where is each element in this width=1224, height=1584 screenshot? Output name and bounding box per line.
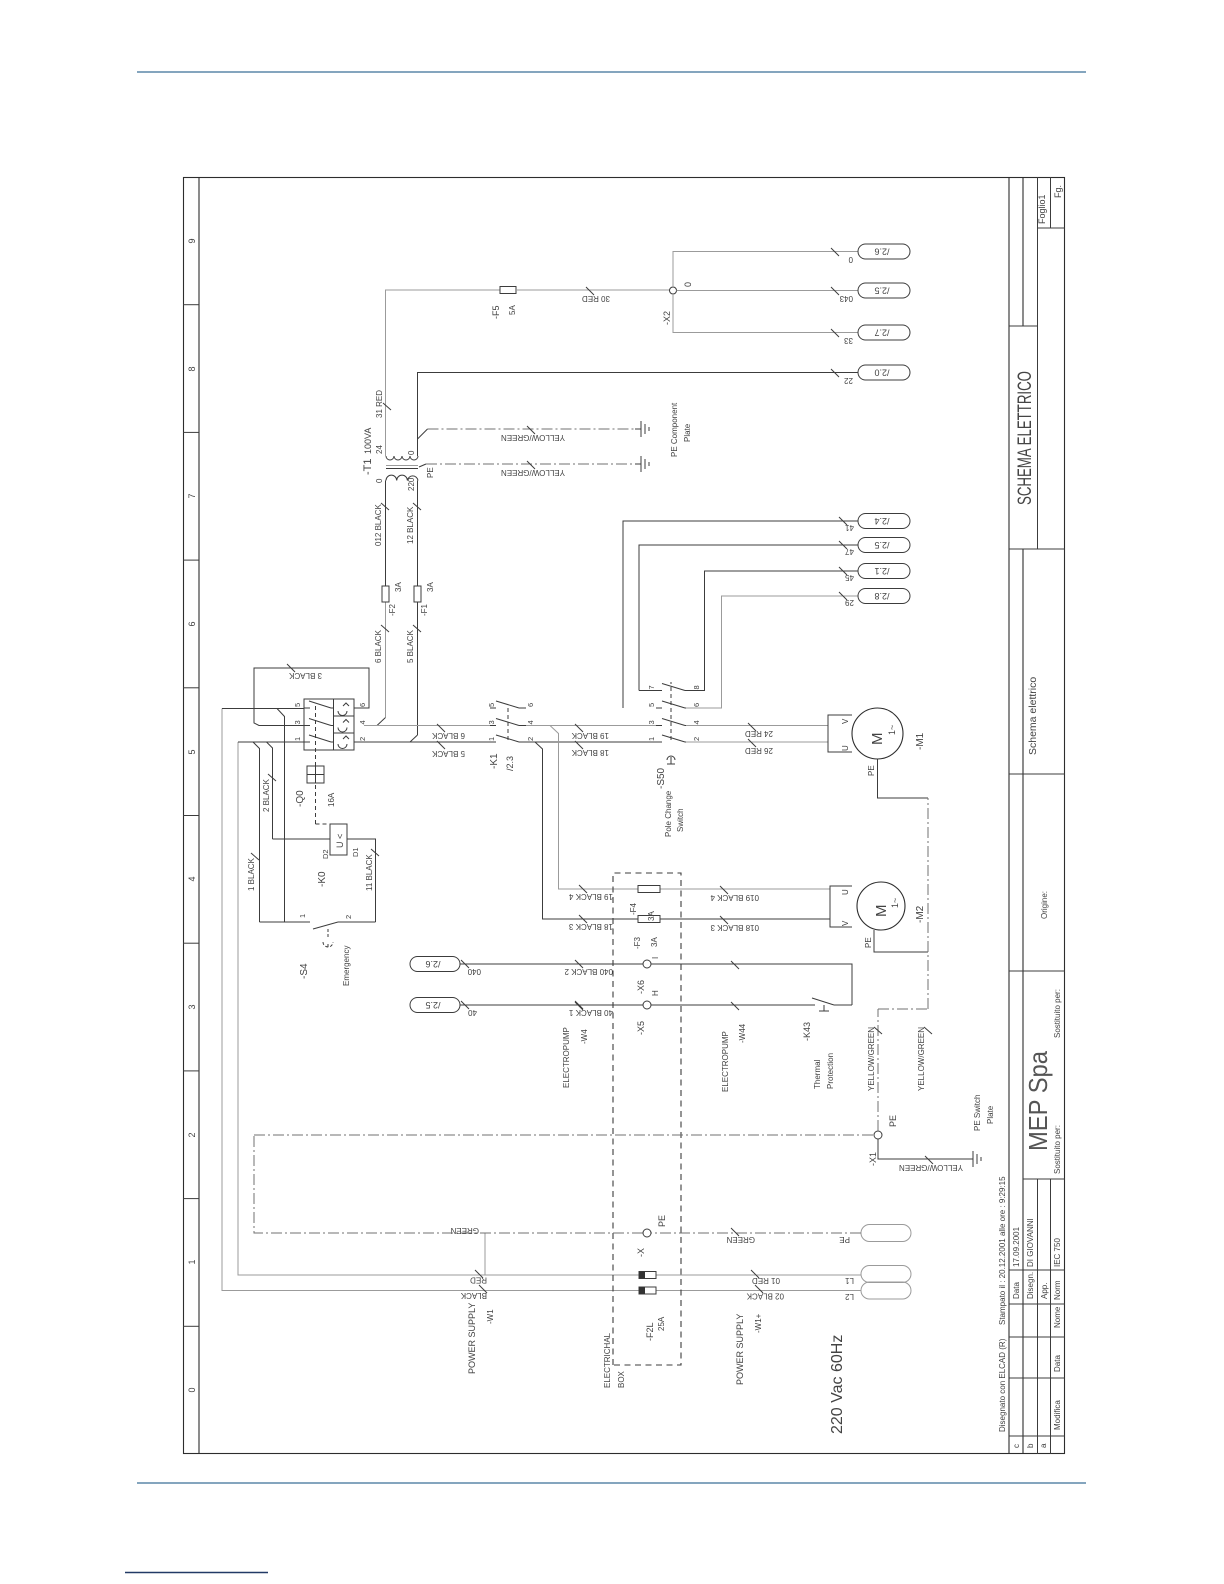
- svg-text:PE: PE: [426, 467, 435, 478]
- wire 30 RED F5 to X2: [516, 289, 670, 291]
- svg-text:RED: RED: [470, 1276, 487, 1285]
- svg-text:4: 4: [526, 720, 535, 724]
- wire 31 RED from T1 secondary: [386, 290, 501, 456]
- svg-text:/2.6: /2.6: [874, 247, 889, 257]
- svg-text:3: 3: [293, 720, 302, 724]
- PE dash-dot line from 0 tap to ground: [428, 428, 636, 430]
- svg-text:2: 2: [187, 1132, 197, 1137]
- X1 earth wire: [878, 1139, 973, 1159]
- svg-text:ELECTROPUMP: ELECTROPUMP: [562, 1027, 571, 1088]
- svg-text:0: 0: [848, 255, 853, 264]
- S4 mushroom actuator: [323, 927, 333, 947]
- svg-text:/2.4: /2.4: [874, 516, 889, 526]
- terminal X5 PE: [643, 1229, 651, 1237]
- svg-text:-F1: -F1: [420, 603, 429, 616]
- svg-text:POWER SUPPLY: POWER SUPPLY: [735, 1314, 745, 1385]
- off-page connector /2.5: [858, 538, 910, 553]
- svg-text:PE: PE: [888, 1115, 898, 1127]
- svg-text:BLACK: BLACK: [460, 1291, 487, 1300]
- svg-text:M: M: [873, 905, 890, 918]
- wire S50.5 to /2.4 reference: [623, 521, 858, 708]
- off-page connector /2.6 lower: [858, 244, 910, 259]
- ELECTRICHAL BOX dashed outline: [613, 873, 681, 1365]
- wire S50.6 to /2.8 reference: [686, 596, 858, 708]
- svg-text:/2.8: /2.8: [874, 591, 889, 601]
- svg-text:V: V: [841, 718, 850, 724]
- wire 019 BLACK 4 fuse F4 to M2.U: [660, 888, 830, 890]
- svg-text:Data: Data: [1012, 1282, 1021, 1299]
- svg-text:45: 45: [845, 573, 854, 582]
- svg-text:30 RED: 30 RED: [582, 294, 610, 303]
- svg-text:I: I: [651, 957, 660, 959]
- off-page connector /2.5 upper: [410, 998, 460, 1013]
- svg-text:5 BLACK: 5 BLACK: [431, 749, 465, 758]
- svg-text:7: 7: [187, 493, 197, 498]
- svg-text:5: 5: [187, 749, 197, 754]
- page footer rule: [137, 1482, 1086, 1484]
- X2 branch to /2.6: [673, 252, 858, 288]
- wire number tick marks: [839, 517, 847, 525]
- svg-text:6: 6: [692, 703, 701, 707]
- svg-text:GREEN: GREEN: [726, 1235, 755, 1244]
- PE bus dash-dot left riser (to X5 PE and PE capsule): [254, 1135, 861, 1233]
- svg-text:-F5: -F5: [491, 306, 501, 320]
- svg-text:3A: 3A: [647, 911, 656, 921]
- svg-text:24: 24: [375, 445, 384, 454]
- supply capsule PE: [861, 1225, 911, 1242]
- svg-text:3: 3: [487, 720, 496, 724]
- svg-text:Nome: Nome: [1053, 1306, 1062, 1328]
- svg-text:Protection: Protection: [826, 1053, 835, 1089]
- svg-text:3A: 3A: [394, 582, 403, 592]
- svg-text:H: H: [651, 990, 660, 996]
- svg-text:4: 4: [692, 720, 701, 724]
- svg-text:-T1: -T1: [362, 459, 374, 476]
- PE dash-dot X1 to machine: [878, 798, 928, 1131]
- svg-text:8: 8: [692, 685, 701, 689]
- svg-text:0: 0: [375, 478, 384, 483]
- terminal X6 I: [643, 960, 651, 968]
- ruler strip line: [198, 177, 200, 1454]
- svg-text:5: 5: [487, 703, 496, 707]
- svg-text:2: 2: [358, 737, 367, 741]
- svg-text:Switch: Switch: [676, 808, 685, 832]
- branch to M2 fuse F3 (18 BLACK 3): [535, 742, 638, 919]
- svg-text:IEC 750: IEC 750: [1053, 1238, 1062, 1267]
- svg-text:3: 3: [647, 720, 656, 724]
- svg-text:4: 4: [187, 876, 197, 881]
- off-page connector /2.0: [858, 365, 910, 380]
- terminal X1 PE: [874, 1131, 882, 1139]
- svg-text:-W44: -W44: [738, 1023, 747, 1043]
- svg-text:YELLOW/GREEN: YELLOW/GREEN: [899, 1163, 963, 1172]
- svg-text:ELECTROPUMP: ELECTROPUMP: [721, 1031, 730, 1092]
- svg-text:-F2L: -F2L: [645, 1322, 655, 1341]
- svg-text:24 RED: 24 RED: [745, 729, 773, 738]
- svg-text:-M1: -M1: [915, 732, 926, 750]
- S50 pole 7-8: [656, 684, 686, 691]
- fuse F4: [638, 886, 660, 893]
- svg-text:U: U: [841, 889, 850, 895]
- svg-text:-S50: -S50: [656, 767, 667, 789]
- svg-text:a: a: [1039, 1443, 1048, 1448]
- svg-text:/2.3: /2.3: [505, 756, 515, 771]
- page header rule: [137, 71, 1086, 73]
- S50 pole 3-4: [656, 719, 686, 726]
- svg-text:6: 6: [358, 703, 367, 707]
- svg-text:220: 220: [407, 477, 416, 491]
- contactor K1 pole 5-6: [490, 701, 526, 708]
- terminal X5 H: [643, 1001, 651, 1009]
- fuse F1: [414, 586, 421, 602]
- svg-text:-X5: -X5: [636, 1021, 646, 1035]
- ground symbol 2: [635, 456, 649, 472]
- svg-text:-K43: -K43: [802, 1022, 812, 1041]
- svg-text:/2.5: /2.5: [425, 1000, 440, 1010]
- svg-text:40 BLACK 1: 40 BLACK 1: [568, 1008, 613, 1017]
- fuse F5: [500, 287, 516, 294]
- svg-text:-F3: -F3: [633, 936, 642, 949]
- svg-text:2: 2: [526, 737, 535, 741]
- off-page connector /2.5 lower: [858, 283, 910, 298]
- svg-text:1: 1: [187, 1259, 197, 1264]
- svg-text:App.: App.: [1040, 1283, 1049, 1299]
- motor M2 terminal bracket: [830, 886, 852, 927]
- wire 5 BLACK from fuse F1 into Q0.2: [354, 481, 418, 743]
- main vertical wire phase A (x=712) Q0 to K1: [354, 741, 490, 743]
- Q0 operating mechanism: [307, 766, 324, 783]
- svg-text:018 BLACK 3: 018 BLACK 3: [710, 923, 759, 932]
- contactor K1 pole 1-2: [490, 735, 526, 742]
- svg-text:1~: 1~: [890, 898, 900, 908]
- svg-text:6 BLACK: 6 BLACK: [431, 731, 465, 740]
- svg-text:Foglio1: Foglio1: [1037, 194, 1047, 224]
- svg-text:0: 0: [407, 450, 416, 455]
- ground symbol 1: [635, 421, 649, 437]
- wire 0 tap to /2.0: [418, 373, 859, 457]
- emergency switch S4 column: [260, 922, 376, 929]
- svg-text:18 BLACK 3: 18 BLACK 3: [568, 922, 613, 931]
- svg-text:26 RED: 26 RED: [745, 746, 773, 755]
- svg-text:BOX: BOX: [617, 1370, 626, 1388]
- svg-text:2: 2: [344, 915, 353, 919]
- wire from supply to Q0 terminal 1: [238, 742, 304, 922]
- svg-text:Thermal: Thermal: [813, 1059, 822, 1089]
- svg-text:12 BLACK: 12 BLACK: [406, 506, 415, 544]
- svg-text:29: 29: [845, 598, 854, 607]
- svg-text:b: b: [1026, 1443, 1035, 1448]
- svg-text:Disegnato con ELCAD (R): Disegnato con ELCAD (R): [998, 1338, 1007, 1432]
- X2 branch to /2.5: [677, 290, 859, 292]
- svg-text:PE: PE: [839, 1235, 850, 1244]
- svg-text:1: 1: [293, 737, 302, 741]
- off-page connector /2.8: [858, 589, 910, 604]
- svg-text:1: 1: [298, 914, 307, 918]
- svg-text:-Q0: -Q0: [295, 790, 306, 807]
- svg-text:0: 0: [683, 282, 693, 287]
- svg-text:5A: 5A: [508, 305, 517, 315]
- wire S50.8 to /2.1 reference: [686, 571, 858, 691]
- svg-text:Schema elettrico: Schema elettrico: [1027, 677, 1039, 755]
- T1 secondary winding: [386, 456, 418, 460]
- svg-text:012 BLACK: 012 BLACK: [374, 504, 383, 546]
- svg-text:-W1: -W1: [486, 1309, 495, 1324]
- svg-text:POWER SUPPLY: POWER SUPPLY: [467, 1303, 477, 1374]
- branch to M2 fuse F4 (19 BLACK 4): [550, 726, 638, 890]
- svg-text:6: 6: [526, 703, 535, 707]
- off-page connector /2.6 upper: [410, 957, 460, 972]
- svg-text:/2.0: /2.0: [874, 368, 889, 378]
- svg-text:M: M: [869, 733, 886, 746]
- svg-text:Fg.: Fg.: [1053, 185, 1063, 198]
- svg-text:6 BLACK: 6 BLACK: [374, 629, 383, 663]
- svg-text:PE: PE: [657, 1215, 667, 1227]
- undervoltage release K0 coil box: [330, 824, 347, 855]
- svg-text:YELLOW/GREEN: YELLOW/GREEN: [501, 433, 565, 442]
- fuse F2L pole 1: [639, 1287, 656, 1294]
- svg-text:GREEN: GREEN: [450, 1226, 479, 1235]
- svg-text:31 RED: 31 RED: [375, 390, 384, 418]
- svg-text:3: 3: [187, 1004, 197, 1009]
- svg-text:-X1: -X1: [868, 1152, 878, 1166]
- svg-text:1~: 1~: [887, 725, 897, 735]
- svg-text:-K0: -K0: [317, 871, 328, 887]
- supply capsule L2: [861, 1282, 911, 1299]
- svg-text:Plate: Plate: [986, 1105, 995, 1124]
- svg-text:Sostituito per:: Sostituito per:: [1053, 1125, 1062, 1174]
- svg-text:47: 47: [845, 547, 854, 556]
- title block column dividers: [1009, 228, 1065, 1436]
- motor M2: [857, 882, 905, 930]
- svg-text:100VA: 100VA: [363, 428, 373, 454]
- svg-text:/2.1: /2.1: [874, 566, 889, 576]
- X2 branch to /2.7: [673, 294, 858, 333]
- svg-text:040: 040: [467, 967, 481, 976]
- svg-text:Norm: Norm: [1053, 1280, 1062, 1300]
- svg-text:Origine:: Origine:: [1040, 891, 1049, 919]
- svg-text:D1: D1: [351, 847, 360, 857]
- svg-text:16A: 16A: [327, 792, 336, 807]
- svg-text:19 BLACK 4: 19 BLACK 4: [568, 892, 613, 901]
- fuse F2: [382, 586, 389, 602]
- svg-text:Sostituito per:: Sostituito per:: [1053, 989, 1062, 1038]
- svg-text:-X: -X: [636, 1248, 646, 1257]
- svg-text:/2.5: /2.5: [874, 286, 889, 296]
- off-page connector /2.7: [858, 325, 910, 340]
- svg-text:PE Component: PE Component: [670, 402, 679, 457]
- svg-text:Disegn.: Disegn.: [1026, 1272, 1035, 1299]
- svg-text:1: 1: [487, 737, 496, 741]
- svg-text:c: c: [1012, 1444, 1021, 1448]
- svg-text:18 BLACK: 18 BLACK: [571, 748, 609, 757]
- wire 24 RED S50.4 to M1.V: [686, 725, 828, 727]
- motor M1 terminal bracket: [828, 715, 852, 752]
- svg-text:PE Switch: PE Switch: [973, 1095, 982, 1131]
- svg-text:220 Vac 60Hz: 220 Vac 60Hz: [829, 1335, 846, 1434]
- Q0 pole 1-2 contact: [304, 735, 334, 742]
- svg-text:D2: D2: [321, 849, 330, 859]
- title block line 2: [1022, 177, 1024, 1454]
- svg-text:3 BLACK: 3 BLACK: [288, 671, 322, 680]
- thermal protection contact K43: [810, 998, 852, 1011]
- M2 PE wire: [874, 930, 928, 952]
- svg-text:9: 9: [187, 238, 197, 243]
- Q0 thermal elements I>: [338, 711, 347, 748]
- svg-text:17.09.2001: 17.09.2001: [1012, 1226, 1021, 1267]
- footer underline mark: [125, 1572, 268, 1574]
- svg-text:YELLOW/GREEN: YELLOW/GREEN: [867, 1027, 876, 1091]
- wire 6 BLACK from fuse F2 into Q0.4: [377, 481, 386, 726]
- wire 7 BLACK loop Q0.6 to Q0.3: [254, 668, 369, 726]
- svg-text:PE: PE: [864, 937, 873, 948]
- motor M1: [852, 708, 903, 759]
- svg-text:Emergency: Emergency: [342, 946, 351, 986]
- svg-text:040 BLACK 2: 040 BLACK 2: [564, 967, 613, 976]
- S50 rotary handle symbol: [667, 756, 675, 764]
- off-page connector /2.1: [858, 564, 910, 579]
- T1 primary winding: [386, 475, 418, 480]
- svg-text:Pole Change: Pole Change: [664, 790, 673, 837]
- svg-text:-X6: -X6: [636, 980, 646, 994]
- svg-text:-X2: -X2: [662, 311, 672, 325]
- PE bus dash-dot riser to X1: [254, 1134, 874, 1136]
- svg-text:3A: 3A: [426, 582, 435, 592]
- svg-text:22: 22: [844, 376, 853, 385]
- ground symbol at X1: [973, 1151, 981, 1167]
- wire 18 BLACK K1.2 to S50.1: [526, 741, 656, 743]
- wire 040 BLACK 2: [460, 964, 852, 1005]
- svg-text:-F4: -F4: [629, 902, 638, 915]
- terminal X2: [670, 287, 677, 294]
- svg-text:/2.5: /2.5: [874, 540, 889, 550]
- svg-text:4: 4: [358, 720, 367, 724]
- transformer T1 core: [386, 468, 418, 470]
- svg-text:19 BLACK: 19 BLACK: [571, 731, 609, 740]
- svg-text:6: 6: [187, 621, 197, 626]
- K0 D2 wire: [273, 838, 331, 840]
- svg-text:1: 1: [647, 737, 656, 741]
- svg-text:Data: Data: [1053, 1355, 1062, 1372]
- svg-text:YELLOW/GREEN: YELLOW/GREEN: [917, 1027, 926, 1091]
- wire S50.7 to /2.5 reference: [639, 545, 858, 691]
- pole change switch S50 pole 1-2: [656, 735, 686, 742]
- svg-text:V: V: [841, 920, 850, 926]
- fuse F3: [638, 916, 660, 923]
- svg-text:YELLOW/GREEN: YELLOW/GREEN: [501, 468, 565, 477]
- svg-text:L1: L1: [845, 1276, 854, 1285]
- svg-text:U: U: [841, 745, 850, 751]
- svg-text:Plate: Plate: [683, 423, 692, 442]
- ruler tick marks: [183, 1325, 199, 1327]
- svg-text:7: 7: [647, 685, 656, 689]
- svg-text:SCHEMA ELETTRICO: SCHEMA ELETTRICO: [1015, 371, 1036, 505]
- svg-text:5: 5: [647, 703, 656, 707]
- svg-text:Stampato il : 20.12.2001 alle: Stampato il : 20.12.2001 alle ore : 9:29…: [998, 1176, 1007, 1325]
- svg-text:ELECTRICHAL: ELECTRICHAL: [603, 1332, 612, 1388]
- Q0 pole 3-4 contact: [304, 719, 334, 726]
- S50 pole 5-6: [656, 701, 686, 708]
- wire 19 BLACK K1.4 to S50.3: [526, 725, 656, 727]
- svg-text:-W4: -W4: [580, 1029, 589, 1044]
- M1 PE wire: [878, 759, 929, 798]
- svg-text:25A: 25A: [657, 1316, 666, 1331]
- svg-text:3A: 3A: [650, 937, 659, 947]
- svg-text:5 BLACK: 5 BLACK: [406, 629, 415, 663]
- Q0 pole 5-6 contact: [304, 701, 334, 708]
- svg-text:019 BLACK 4: 019 BLACK 4: [710, 893, 759, 902]
- supply capsule L1: [861, 1266, 911, 1283]
- svg-text:-M2: -M2: [915, 905, 926, 923]
- wire 26 RED S50.2 to M1.U: [686, 741, 828, 743]
- svg-text:5: 5: [293, 703, 302, 707]
- svg-text:-S4: -S4: [299, 963, 310, 979]
- svg-text:U <: U <: [335, 834, 345, 848]
- title block row lines: [1038, 177, 1051, 1454]
- main vertical wire phase B (x=728.5) Q0 to K1: [364, 725, 490, 727]
- svg-text:2: 2: [692, 737, 701, 741]
- svg-text:/2.6: /2.6: [425, 959, 440, 969]
- svg-text:02 BLACK: 02 BLACK: [746, 1292, 784, 1301]
- svg-text:8: 8: [187, 366, 197, 371]
- svg-text:DI GIOVANNI: DI GIOVANNI: [1026, 1218, 1035, 1267]
- svg-text:/2.7: /2.7: [874, 328, 889, 338]
- svg-text:043: 043: [839, 294, 853, 303]
- svg-text:40: 40: [468, 1008, 477, 1017]
- wire from supply to Q0 terminal 5: [222, 709, 304, 923]
- circuit breaker Q0 box: [304, 699, 354, 750]
- svg-text:41: 41: [845, 523, 854, 532]
- svg-text:33: 33: [844, 336, 853, 345]
- wire 40 BLACK 1: [460, 1004, 810, 1006]
- svg-text:MEP Spa: MEP Spa: [1023, 1051, 1053, 1151]
- svg-text:PE: PE: [867, 765, 876, 776]
- svg-text:L2: L2: [845, 1292, 854, 1301]
- drawing frame border: [184, 178, 1065, 1454]
- svg-text:-W1+: -W1+: [754, 1313, 763, 1333]
- svg-text:-K1: -K1: [489, 753, 500, 769]
- fuse F2L pole 2: [639, 1272, 656, 1279]
- PE dash-dot line from T1 PE to ground: [419, 464, 426, 467]
- wire 2 BLACK (K0 coil wire): [267, 742, 273, 839]
- PE bond diagonal from 0 tap: [418, 429, 428, 439]
- green PE jumper wire: [484, 1233, 486, 1275]
- wire L2 supply (black conductor): [222, 709, 861, 1291]
- title block top line: [1008, 177, 1010, 1454]
- svg-text:2 BLACK: 2 BLACK: [262, 778, 271, 812]
- svg-text:1 BLACK: 1 BLACK: [247, 857, 256, 891]
- svg-text:0: 0: [187, 1387, 197, 1392]
- svg-text:11 BLACK: 11 BLACK: [365, 854, 374, 891]
- wire 018 BLACK 3 fuse F3 to M2.V: [660, 918, 830, 920]
- svg-text:01 RED: 01 RED: [752, 1276, 780, 1285]
- svg-text:Modifica: Modifica: [1053, 1400, 1062, 1430]
- wire L1 supply (red conductor): [238, 742, 861, 1275]
- wire 11 BLACK (K0 D1): [347, 839, 376, 922]
- contactor K1 pole 3-4: [490, 719, 526, 726]
- svg-text:-F2: -F2: [388, 603, 397, 616]
